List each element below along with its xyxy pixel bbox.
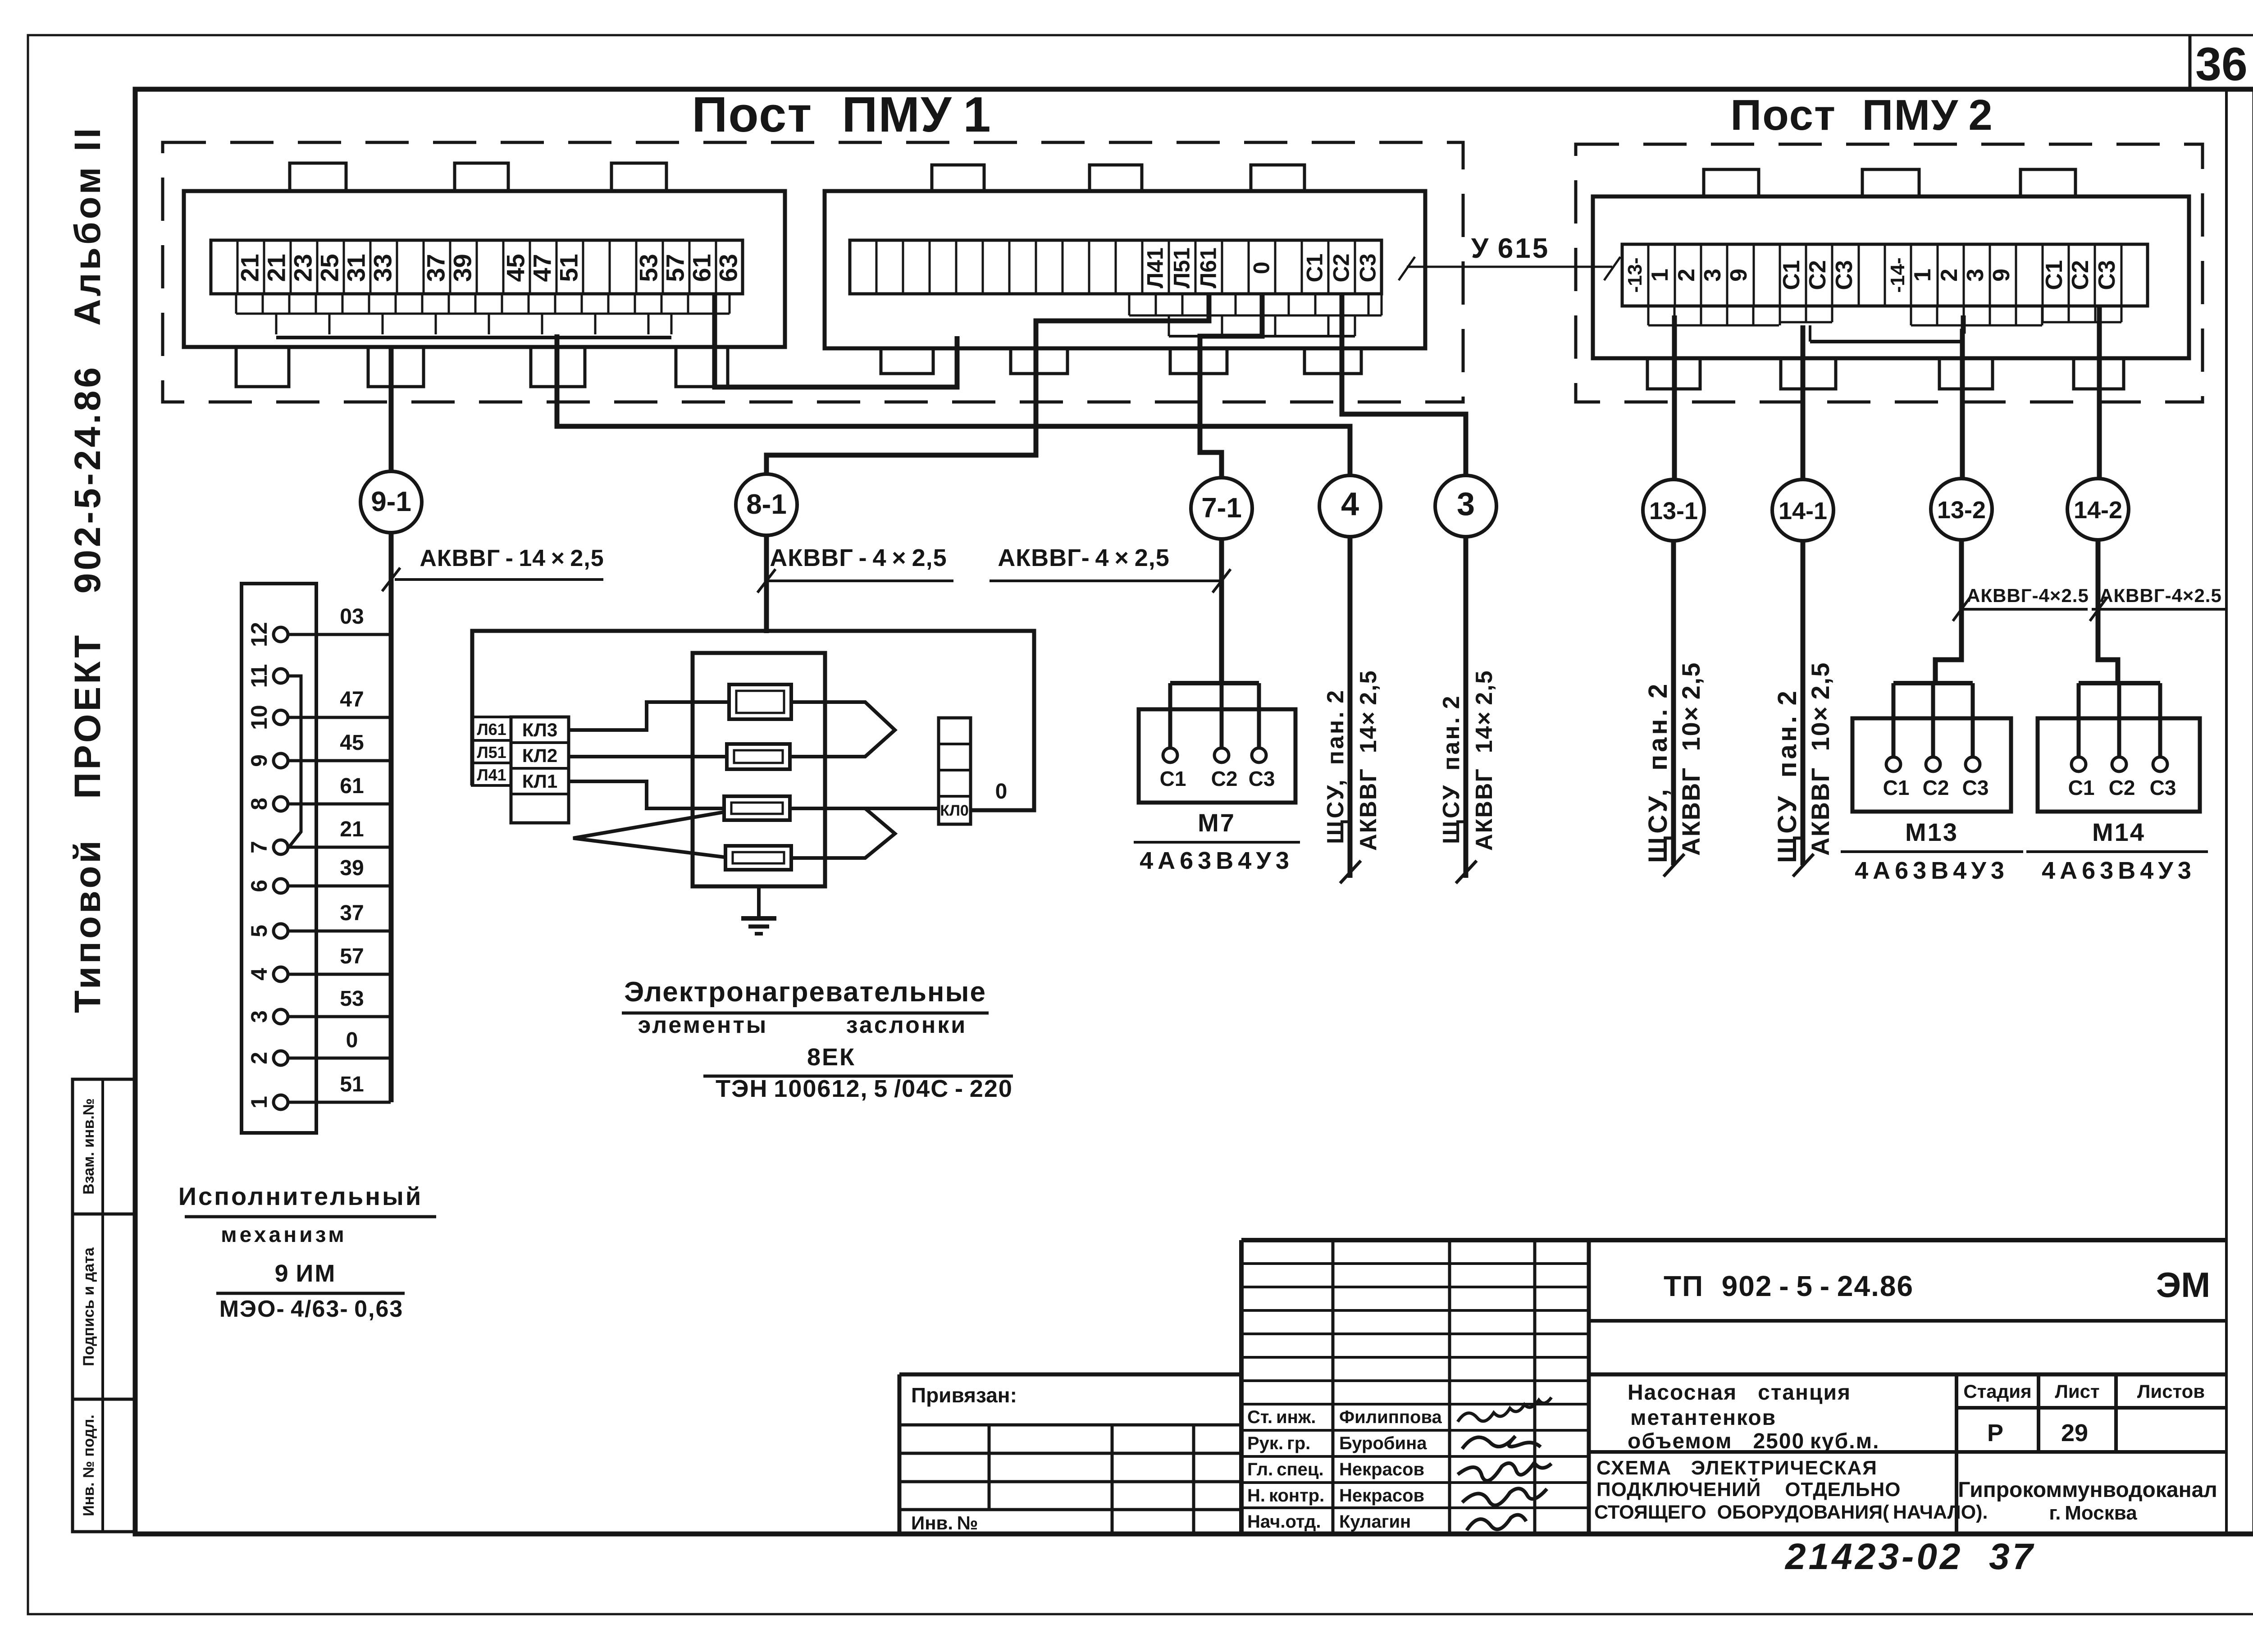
svg-text:33: 33 [369, 254, 397, 282]
svg-text:АКВВГ 10× 2,5: АКВВГ 10× 2,5 [1806, 662, 1834, 856]
sheet number box 36 [2189, 35, 2192, 89]
svg-text:51: 51 [555, 254, 583, 282]
motor M7 [1139, 709, 1295, 803]
svg-text:13-1: 13-1 [1649, 497, 1698, 525]
svg-text:-14-: -14- [1887, 257, 1909, 292]
svg-text:Л61: Л61 [1196, 247, 1221, 288]
post PMU1 dashed enclosure [163, 142, 1463, 402]
svg-text:С2: С2 [2067, 260, 2093, 290]
svg-text:29: 29 [2061, 1419, 2088, 1447]
actuator terminal strip body [242, 584, 316, 1133]
svg-text:Пост ПМУ 1: Пост ПМУ 1 [692, 87, 991, 142]
wire tag Л51 [472, 740, 511, 763]
svg-text:Гипрокоммунводоканал: Гипрокоммунводоканал [1958, 1478, 2217, 1502]
motor M13 [1852, 718, 2011, 812]
wire circle 3 down to ShchSU [1464, 537, 1469, 878]
svg-text:7-1: 7-1 [1201, 493, 1242, 524]
terminal 12 of actuator strip [274, 627, 288, 642]
svg-text:9-1: 9-1 [371, 486, 411, 517]
shell XS1 top tabs [290, 163, 346, 191]
terminal 7 of actuator strip [274, 840, 288, 854]
svg-text:57: 57 [661, 254, 689, 282]
wire rung terminal 12 [288, 633, 391, 636]
svg-text:АКВВГ - 14 × 2,5: АКВВГ - 14 × 2,5 [420, 545, 604, 571]
svg-text:Привязан:: Привязан: [911, 1383, 1017, 1407]
wire 14-1 down to ShchSU [1801, 541, 1806, 865]
svg-text:М14: М14 [2092, 818, 2145, 846]
svg-text:9: 9 [246, 754, 272, 767]
wire КЛ2 to EK2 [569, 755, 727, 758]
svg-text:ПОДКЛЮЧЕНИЙ ОТДЕЛЬНО: ПОДКЛЮЧЕНИЙ ОТДЕЛЬНО [1596, 1478, 1901, 1501]
wire XS3 to circle 13-2 [1962, 315, 1963, 479]
svg-text:Инв. №: Инв. № [911, 1512, 978, 1533]
wire chevron EK1-EK2 [790, 702, 895, 757]
svg-text:03: 03 [340, 605, 364, 629]
title block grid [1241, 1238, 2226, 1242]
svg-text:3: 3 [246, 1010, 272, 1023]
svg-text:Л51: Л51 [1169, 247, 1195, 288]
relay contact column КЛ3/КЛ2/КЛ1 [511, 717, 569, 823]
svg-text:КЛ3: КЛ3 [522, 719, 557, 740]
svg-text:21: 21 [236, 254, 264, 282]
ground symbol [757, 886, 761, 918]
svg-text:61: 61 [340, 774, 364, 798]
svg-text:61: 61 [688, 254, 716, 282]
svg-text:АКВВГ 10× 2,5: АКВВГ 10× 2,5 [1677, 662, 1705, 856]
svg-text:2: 2 [1674, 269, 1700, 282]
heating element EK1 [729, 685, 791, 719]
svg-text:31: 31 [342, 254, 370, 282]
svg-text:9 ИМ: 9 ИМ [275, 1260, 337, 1287]
svg-text:ТП 902 - 5 - 24.86: ТП 902 - 5 - 24.86 [1664, 1270, 1914, 1302]
post PMU2 dashed enclosure [1576, 144, 2203, 402]
terminal 1 of actuator strip [274, 1095, 288, 1109]
svg-text:Буробина: Буробина [1339, 1433, 1427, 1453]
wire from XS2 (Л61) to circle 8-1 [766, 294, 1209, 475]
node circle 7-1 [1191, 478, 1252, 539]
wire to actuator circle 9-1 [389, 347, 394, 471]
XS1 under-row stubs level 1 [236, 313, 730, 315]
svg-text:элементы: элементы [638, 1012, 768, 1038]
svg-text:9: 9 [1988, 269, 2015, 282]
wire rung terminal 4 [288, 973, 391, 976]
svg-text:С1: С1 [1302, 254, 1327, 283]
wire 13-1 down to ShchSU [1671, 541, 1676, 865]
XS3 under-row stubs [1648, 324, 1779, 327]
svg-text:11: 11 [246, 664, 272, 688]
heater feed loop (from 8-1) [472, 631, 1034, 810]
svg-text:25: 25 [315, 254, 344, 282]
svg-text:53: 53 [340, 987, 364, 1011]
svg-text:45: 45 [340, 731, 364, 755]
wire rung terminal 1 [288, 1101, 391, 1104]
wire chevron left EK3-EK4 [573, 812, 724, 857]
svg-text:Типовой ПРОЕКТ 902-5-24.86: Типовой ПРОЕКТ 902-5-24.86 Альбом II [67, 125, 108, 1013]
right margin line [2225, 89, 2228, 1534]
wire rung terminal 2 [288, 1057, 391, 1060]
svg-text:Взам. инв.№: Взам. инв.№ [80, 1098, 97, 1195]
node circle 8-1 [736, 474, 797, 535]
svg-text:Гл. спец.: Гл. спец. [1247, 1460, 1324, 1479]
svg-text:37: 37 [340, 901, 364, 925]
svg-text:21: 21 [262, 254, 291, 282]
cable label ЩСУ пан.2 / АКВВГ 10х2,5 (circle 13-1) [1664, 854, 1684, 876]
svg-text:13-2: 13-2 [1937, 497, 1986, 524]
wire from XS2 (0) to circle 7-1 [1200, 294, 1262, 479]
svg-text:21: 21 [340, 817, 364, 841]
terminal 11 of actuator strip [274, 669, 288, 683]
svg-text:0: 0 [995, 780, 1008, 803]
svg-text:53: 53 [634, 254, 663, 282]
connector shell XS2 (PMU1 right) [825, 191, 1425, 348]
svg-text:КЛ0: КЛ0 [940, 802, 969, 819]
wire EK3 to КЛ0 [790, 807, 939, 810]
svg-text:8: 8 [246, 798, 272, 810]
svg-text:4: 4 [246, 968, 272, 981]
svg-text:С1: С1 [1779, 260, 1805, 290]
terminal 9 of actuator strip [274, 753, 288, 768]
svg-text:14-2: 14-2 [2074, 497, 2122, 524]
wire КЛ1 to EK3 [569, 781, 724, 808]
wire link XS1 to XS2 [715, 294, 957, 387]
svg-text:КЛ1: КЛ1 [522, 771, 557, 792]
node circle 4 [1319, 475, 1381, 537]
svg-text:Насосная станция: Насосная станция [1628, 1381, 1851, 1405]
svg-text:Лист: Лист [2055, 1381, 2099, 1402]
svg-text:АКВВГ-4×2.5: АКВВГ-4×2.5 [1966, 585, 2089, 606]
svg-text:АКВВГ-4×2.5: АКВВГ-4×2.5 [2099, 585, 2222, 606]
svg-text:5: 5 [246, 925, 272, 937]
svg-text:Л51: Л51 [477, 743, 506, 762]
svg-text:57: 57 [340, 945, 364, 968]
svg-text:1: 1 [1647, 269, 1673, 282]
node circle 13-2 [1931, 479, 1992, 540]
svg-text:Р: Р [1987, 1419, 2003, 1447]
terminal 10 of actuator strip [274, 710, 288, 725]
svg-text:С2: С2 [1805, 260, 1831, 290]
cable label ЩСУ пан.2 / АКВВГ 10х2,5 (circle 14-1) [1793, 854, 1814, 876]
wire tag Л41 [472, 763, 511, 785]
svg-text:Электронагревательные: Электронагревательные [624, 977, 986, 1008]
svg-text:ЭМ: ЭМ [2156, 1265, 2210, 1305]
terminal 6 of actuator strip [274, 879, 288, 893]
svg-text:АКВВГ - 4 × 2,5: АКВВГ - 4 × 2,5 [770, 544, 947, 571]
svg-text:2: 2 [1936, 269, 1962, 282]
heating element EK3 [724, 796, 790, 820]
svg-text:КЛ2: КЛ2 [522, 745, 557, 766]
svg-text:Инв. № подл.: Инв. № подл. [80, 1415, 97, 1516]
svg-text:С1: С1 [2068, 776, 2095, 799]
svg-text:0: 0 [346, 1028, 358, 1052]
svg-text:Пост ПМУ 2: Пост ПМУ 2 [1730, 91, 1993, 139]
svg-text:У 615: У 615 [1471, 233, 1550, 264]
wire 7-1 down to motor M7 [1219, 539, 1224, 683]
svg-text:45: 45 [502, 254, 530, 282]
wire circle 4 down to ShchSU [1348, 537, 1353, 878]
wire 14-2 down to motor M14 [2098, 540, 2118, 683]
svg-text:4А63В4У3: 4А63В4У3 [1140, 847, 1294, 874]
wire rung terminal 3 [288, 1015, 391, 1018]
connector shell XS1 (PMU1 left) [184, 191, 785, 347]
svg-text:С1: С1 [1883, 776, 1910, 799]
terminal 4 of actuator strip [274, 967, 288, 981]
svg-text:Л41: Л41 [1143, 247, 1168, 288]
wire rung terminal 10 [288, 716, 391, 719]
svg-text:МЭО- 4/63- 0,63: МЭО- 4/63- 0,63 [219, 1296, 404, 1322]
svg-text:51: 51 [340, 1072, 364, 1096]
motor M14 [2038, 718, 2200, 812]
svg-text:С3: С3 [1831, 260, 1857, 290]
svg-text:3: 3 [1700, 269, 1726, 282]
shell XS1 bottom tabs [236, 347, 289, 387]
XS1 under-row stubs level 2 [276, 336, 671, 339]
wire rung terminal 9 [288, 759, 391, 762]
svg-text:47: 47 [528, 254, 556, 282]
sidebar table [73, 1079, 135, 1532]
svg-text:С3: С3 [1355, 254, 1381, 283]
svg-text:10: 10 [246, 705, 272, 730]
svg-text:Филиппова: Филиппова [1339, 1407, 1442, 1427]
svg-text:С2: С2 [1923, 776, 1949, 799]
svg-text:Исполнительный: Исполнительный [178, 1182, 423, 1210]
svg-text:7: 7 [246, 841, 272, 853]
wire 8-1 down to heater loop [764, 535, 769, 633]
svg-text:12: 12 [246, 622, 272, 647]
node circle 14-2 [2067, 479, 2129, 540]
svg-text:9: 9 [1726, 269, 1752, 282]
svg-text:Листов: Листов [2137, 1381, 2205, 1402]
svg-text:-13-: -13- [1624, 257, 1646, 292]
svg-text:37: 37 [422, 254, 450, 282]
neutral contact strip with КЛ0 [939, 718, 971, 824]
shell XS2 top tabs [932, 165, 984, 191]
svg-text:Ст. инж.: Ст. инж. [1247, 1407, 1316, 1427]
svg-text:1: 1 [246, 1096, 272, 1109]
node circle 3 [1435, 475, 1496, 537]
cable label ЩСУ пан.2 / АКВВГ 14х2,5 (circle 4) [1340, 861, 1361, 883]
wire tag Л61 [472, 717, 511, 740]
svg-text:Нач.отд.: Нач.отд. [1247, 1512, 1321, 1532]
svg-text:Стадия: Стадия [1963, 1381, 2031, 1402]
terminal strip XS2 row [850, 240, 1382, 294]
svg-text:ЩСУ, пан. 2: ЩСУ, пан. 2 [1323, 689, 1349, 844]
wire XS3 to circle 14-1 [1801, 325, 1806, 480]
svg-text:63: 63 [714, 254, 743, 282]
svg-text:С1: С1 [2041, 260, 2067, 290]
wire XS3 (С3) to circle 14-2 [2097, 306, 2102, 479]
svg-text:С3: С3 [1962, 776, 1989, 799]
svg-text:АКВВГ- 4 × 2,5: АКВВГ- 4 × 2,5 [998, 544, 1170, 571]
svg-text:С2: С2 [2109, 776, 2135, 799]
connector shell XS3 (PMU2) [1593, 196, 2189, 358]
svg-text:Н. контр.: Н. контр. [1247, 1486, 1324, 1506]
svg-text:39: 39 [340, 856, 364, 880]
svg-text:3: 3 [1962, 269, 1988, 282]
svg-text:заслонки: заслонки [846, 1012, 967, 1038]
svg-text:С3: С3 [2150, 776, 2176, 799]
svg-text:М13: М13 [1905, 818, 1958, 846]
terminal strip XS1 row [211, 240, 743, 294]
wire rung terminal 7 [288, 846, 391, 849]
node circle 14-1 [1772, 479, 1833, 541]
svg-text:8-1: 8-1 [746, 489, 787, 520]
svg-text:механизм: механизм [221, 1223, 347, 1247]
svg-text:47: 47 [340, 688, 364, 712]
shell XS3 top tabs [1704, 169, 1759, 196]
wire 13-2 down to motor M13 [1935, 540, 1961, 683]
svg-text:ЩСУ, пан. 2: ЩСУ, пан. 2 [1643, 681, 1673, 863]
svg-text:метантенков: метантенков [1630, 1406, 1776, 1430]
svg-text:6: 6 [246, 880, 272, 892]
svg-text:АКВВГ 14× 2,5: АКВВГ 14× 2,5 [1471, 670, 1497, 851]
node circle 9-1 [360, 471, 422, 533]
svg-text:М7: М7 [1198, 808, 1236, 837]
svg-text:Рук. гр.: Рук. гр. [1247, 1433, 1310, 1453]
heating element EK2 [727, 744, 790, 769]
svg-text:ЩСУ пан. 2: ЩСУ пан. 2 [1773, 688, 1802, 863]
svg-text:СТОЯЩЕГО ОБОРУДОВАНИЯ( НАЧАЛО: СТОЯЩЕГО ОБОРУДОВАНИЯ( НАЧАЛО). [1594, 1501, 1988, 1523]
terminal 8 of actuator strip [274, 797, 288, 811]
heater block outline 8EK [693, 653, 825, 886]
wire 9-1 to terminal ladder bus [389, 533, 394, 1102]
svg-text:Подпись и дата: Подпись и дата [80, 1247, 97, 1366]
XS2 under-row stubs level 2 [1169, 335, 1355, 338]
svg-text:Некрасов: Некрасов [1339, 1460, 1424, 1479]
svg-text:23: 23 [289, 254, 317, 282]
svg-text:3: 3 [1457, 486, 1475, 522]
XS2 under-row stubs level 1 [1129, 315, 1382, 317]
svg-text:Кулагин: Кулагин [1339, 1512, 1411, 1532]
wire rung terminal 8 [288, 803, 391, 806]
wire from XS1 to circle 4 [557, 334, 1350, 476]
wire XS3 to circle 13-1 [1672, 315, 1677, 480]
svg-text:г. Москва: г. Москва [2049, 1502, 2137, 1524]
svg-text:Л61: Л61 [477, 720, 506, 739]
svg-text:2: 2 [246, 1052, 272, 1064]
wire КЛ3 to EK1 [569, 702, 729, 730]
wire rung terminal 5 [288, 930, 391, 933]
svg-text:ТЭН 100612, 5 /04С - 220: ТЭН 100612, 5 /04С - 220 [716, 1075, 1013, 1102]
svg-text:0: 0 [1249, 262, 1274, 274]
svg-text:4А63В4У3: 4А63В4У3 [2042, 857, 2196, 884]
svg-text:8ЕК: 8ЕК [807, 1044, 856, 1071]
net U615 leader line [1407, 266, 1612, 268]
svg-text:ЩСУ пан. 2: ЩСУ пан. 2 [1438, 694, 1464, 844]
svg-text:АКВВГ 14× 2,5: АКВВГ 14× 2,5 [1355, 670, 1382, 851]
heating element EK4 [725, 846, 791, 870]
signatures [1458, 1397, 1551, 1422]
svg-text:С3: С3 [1249, 767, 1275, 790]
node circle 13-1 [1643, 479, 1704, 541]
svg-text:4: 4 [1341, 486, 1359, 522]
svg-text:Некрасов: Некрасов [1339, 1486, 1424, 1506]
terminal 2 of actuator strip [274, 1051, 288, 1065]
terminal 5 of actuator strip [274, 924, 288, 938]
title block binding box Привязан [899, 1373, 1241, 1377]
wire from XS2 (С2) to circle 3 [1342, 294, 1466, 476]
svg-text:36: 36 [2195, 38, 2248, 91]
terminal strip XS3 row [1622, 244, 2148, 306]
wire chevron EK3-EK4 [791, 808, 895, 858]
svg-text:21423-02 37: 21423-02 37 [1784, 1536, 2035, 1577]
svg-text:Л41: Л41 [477, 766, 506, 784]
svg-text:С3: С3 [2094, 260, 2120, 290]
svg-text:39: 39 [448, 254, 477, 282]
jumper terminal 11 to 7 [289, 676, 301, 847]
cable label ЩСУ пан.2 / АКВВГ 14х2,5 (circle 3) [1456, 861, 1477, 883]
svg-text:объемом 2500 куб.м.: объемом 2500 куб.м. [1628, 1429, 1879, 1453]
svg-text:С2: С2 [1211, 767, 1238, 790]
terminal 3 of actuator strip [274, 1009, 288, 1024]
wire rung terminal 6 [288, 885, 391, 888]
svg-text:4А63В4У3: 4А63В4У3 [1855, 857, 2009, 884]
svg-text:1: 1 [1910, 269, 1936, 282]
shell XS3 bottom tabs [1647, 358, 1700, 389]
svg-text:СХЕМА ЭЛЕКТРИЧЕСКАЯ: СХЕМА ЭЛЕКТРИЧЕСКАЯ [1596, 1457, 1878, 1479]
svg-text:14-1: 14-1 [1779, 497, 1827, 525]
svg-text:С2: С2 [1329, 254, 1354, 283]
shell XS2 bottom tabs [881, 348, 933, 374]
svg-text:С1: С1 [1160, 767, 1186, 790]
